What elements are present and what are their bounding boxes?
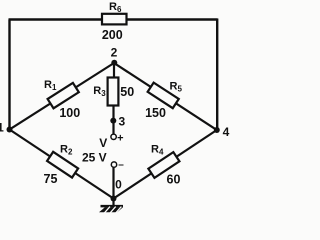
resistor R1 [48, 83, 79, 108]
resistor R3 [93, 78, 134, 106]
ground [99, 206, 123, 213]
wire node 3 to source plus terminal [112, 121, 114, 134]
wire R3 to node 3 [112, 105, 114, 121]
resistor R4 [148, 152, 179, 178]
node 1 [7, 127, 13, 133]
node 3 [110, 118, 116, 124]
svg-text:50: 50 [120, 85, 134, 99]
svg-text:100: 100 [59, 106, 80, 120]
svg-text:0: 0 [115, 178, 122, 192]
svg-text:3: 3 [118, 114, 125, 128]
svg-text:75: 75 [44, 172, 58, 186]
svg-text:+: + [117, 133, 123, 145]
wire right rail (top rail down to node 4) [216, 19, 218, 131]
resistor R5 [148, 83, 179, 109]
wire top rail right segment [126, 18, 218, 20]
wire node 1 to node 0 [10, 130, 114, 199]
wire node 1 to node 2 [10, 63, 115, 130]
resistor R6 [102, 1, 127, 42]
svg-text:25 V: 25 V [82, 151, 107, 165]
svg-text:1: 1 [0, 121, 4, 135]
wire node 0 to node 4 [114, 130, 217, 199]
source minus terminal [111, 162, 116, 167]
wire node 0 to ground [112, 199, 114, 207]
svg-text:60: 60 [167, 172, 181, 186]
wire node 2 to R3 [113, 63, 115, 79]
node 0 [111, 196, 117, 202]
source plus terminal [111, 134, 116, 139]
wire left rail (node 1 up to top rail) [8, 20, 10, 131]
resistor R2 [47, 152, 78, 178]
svg-text:V: V [99, 136, 107, 150]
node 2 [111, 60, 117, 66]
node 4 [214, 127, 220, 133]
svg-text:2: 2 [111, 46, 118, 60]
svg-text:150: 150 [145, 106, 166, 120]
wire node 2 to node 4 [114, 63, 217, 130]
wire source minus to node 0 [112, 168, 114, 199]
svg-text:–: – [118, 160, 124, 171]
svg-text:200: 200 [102, 28, 123, 42]
svg-text:4: 4 [223, 125, 230, 139]
wire top rail left segment [9, 18, 104, 20]
